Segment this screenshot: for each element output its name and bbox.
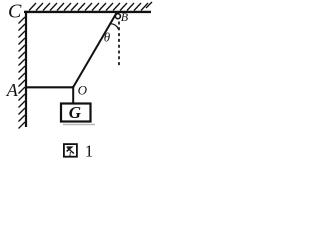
wall xyxy=(25,11,27,127)
svg-text:B: B xyxy=(121,10,129,24)
node O junction hanger wire xyxy=(72,86,74,104)
wall hatching xyxy=(19,17,26,129)
svg-text:A: A xyxy=(6,80,19,100)
svg-text:θ: θ xyxy=(104,30,111,45)
ceiling xyxy=(24,11,151,13)
box shadow xyxy=(63,124,95,126)
svg-text:C: C xyxy=(8,0,22,22)
wire rod AO xyxy=(27,86,74,88)
angle arc xyxy=(110,24,118,30)
caption: hanzi TU (figure) drawn as paths xyxy=(64,144,77,157)
hinge circle at B xyxy=(115,14,120,19)
svg-text:G: G xyxy=(69,103,82,122)
ceiling hatching xyxy=(29,2,152,11)
dashed vertical reference line xyxy=(118,22,120,67)
weight box G xyxy=(61,104,91,122)
svg-text:1: 1 xyxy=(85,141,94,160)
wire rod BO xyxy=(73,13,116,87)
svg-text:O: O xyxy=(78,82,88,97)
